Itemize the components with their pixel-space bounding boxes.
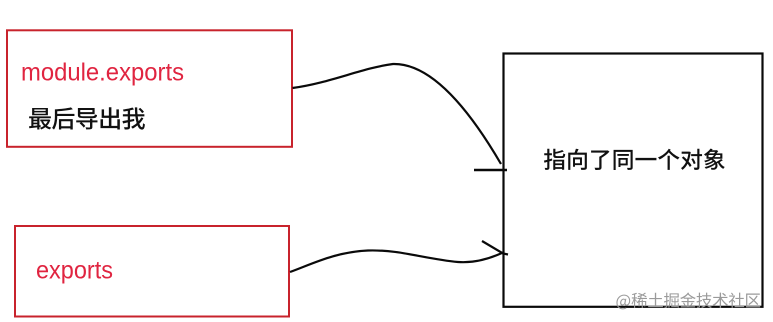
svg-text:exports: exports	[36, 257, 113, 285]
arrowhead tick of upper arrow (horizontal bar)	[474, 169, 507, 171]
arrowhead barb of lower arrow (diagonal stroke)	[482, 241, 508, 255]
box module.exports (top-left red rectangle)	[7, 30, 292, 147]
arrow from module.exports box to big box (upper curve)	[293, 64, 502, 164]
svg-text:module.exports: module.exports	[21, 59, 184, 87]
watermark @稀土掘金技术社区 (gray)	[616, 292, 760, 309]
box same-object (large black rectangle on right)	[504, 54, 763, 307]
box exports (bottom-left red rectangle)	[15, 226, 289, 317]
arrow from exports box to big box (lower curve)	[290, 250, 503, 272]
label 指向了同一个对象 (black CJK text in big box)	[544, 149, 725, 170]
label 最后导出我 (black CJK text in top box)	[29, 107, 145, 129]
